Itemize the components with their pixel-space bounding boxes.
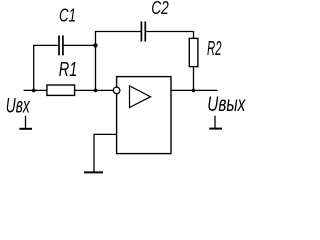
resistor R2 [189, 38, 198, 66]
ground input stem [25, 116, 27, 129]
node input junction [32, 89, 36, 93]
svg-text:R2: R2 [207, 38, 222, 60]
svg-text:Uвх: Uвх [6, 94, 31, 117]
ground op-amp [84, 171, 103, 173]
svg-text:C2: C2 [151, 0, 169, 18]
node R1/op-amp junction [94, 89, 98, 93]
op-amp U1 box [117, 77, 171, 154]
wire mid vertical [95, 32, 97, 91]
wire C1 right to node A [64, 44, 96, 46]
capacitor C1 [59, 35, 63, 55]
op-amp inverting input bubble [113, 87, 120, 94]
node output junction [192, 89, 196, 93]
svg-text:R1: R1 [59, 59, 78, 81]
wire R1 to op-amp input [75, 89, 116, 91]
ground input bar [19, 128, 32, 130]
ground output bar [209, 128, 222, 130]
wire R2 to output node [193, 67, 195, 91]
capacitor C2 [141, 22, 145, 42]
wire left vertical up to C1 [34, 45, 59, 90]
wire non-inverting input to ground [94, 134, 117, 172]
wire C2 to R2 [146, 32, 194, 39]
wire output [171, 89, 218, 91]
wire top to C2 [95, 31, 141, 33]
svg-text:Uвых: Uвых [207, 93, 246, 116]
wire input stub [24, 89, 48, 91]
resistor R1 [47, 85, 75, 95]
svg-text:C1: C1 [59, 5, 76, 26]
ground output stem [214, 116, 216, 129]
op-amp triangle [130, 86, 151, 108]
node A (C1/C2 junction) [93, 43, 97, 47]
